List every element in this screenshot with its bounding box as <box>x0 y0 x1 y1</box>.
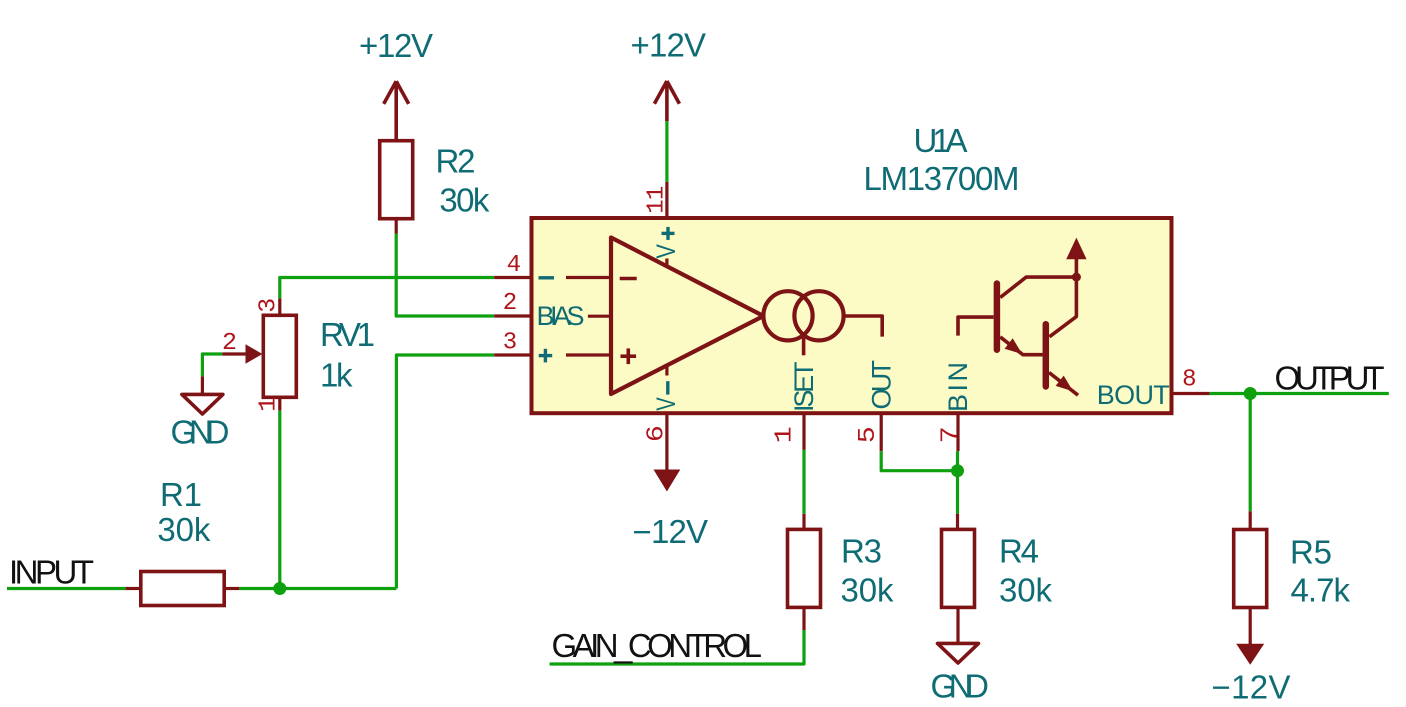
wire RV1 pin3 to pin4 <box>280 278 494 299</box>
svg-text:R3: R3 <box>841 533 882 570</box>
power symbol -12V (R5) <box>1212 644 1291 706</box>
wire R2 to pin2 BIAS <box>396 234 494 317</box>
pin 7 BIN <box>956 413 959 451</box>
svg-text:5: 5 <box>855 426 882 443</box>
current mirror ISET stub <box>802 333 806 355</box>
svg-text:1k: 1k <box>320 357 353 394</box>
svg-text:6: 6 <box>644 425 671 442</box>
svg-text:OUT: OUT <box>867 360 897 410</box>
svg-text:OUTPUT: OUTPUT <box>1275 360 1385 397</box>
svg-text:R2: R2 <box>436 142 476 179</box>
pin 1 ISET <box>802 413 805 450</box>
vertical to right transistor collector <box>1049 277 1076 337</box>
resistor R2 <box>380 141 490 234</box>
resistor R3 <box>788 514 895 630</box>
wire junction down to R5 <box>1249 394 1252 512</box>
svg-text:30k: 30k <box>439 181 490 218</box>
svg-text:RV1: RV1 <box>320 316 375 353</box>
current mirror circles <box>763 291 812 340</box>
wire pin1 to R3 <box>802 450 805 514</box>
svg-text:+12V: +12V <box>359 27 433 64</box>
svg-text:R4: R4 <box>999 533 1039 570</box>
junction dot at R1/RV1 <box>273 582 286 595</box>
right transistor base bar <box>1043 324 1050 386</box>
wire junction to pin3 (+) <box>396 355 494 589</box>
svg-text:+12V: +12V <box>631 27 707 64</box>
pin name V- (pin6) <box>666 381 669 394</box>
pin 4 <box>494 276 531 279</box>
wire BOUT to OUTPUT <box>1210 392 1389 395</box>
svg-text:BIAS: BIAS <box>537 301 585 331</box>
arrow up (output current) <box>1075 259 1079 278</box>
svg-text:1: 1 <box>772 426 799 443</box>
svg-text:R1: R1 <box>160 476 202 513</box>
svg-text:1: 1 <box>256 397 283 412</box>
wire junction up to RV1 pin1 <box>278 411 281 589</box>
svg-text:30k: 30k <box>999 572 1053 609</box>
svg-text:3: 3 <box>256 298 283 313</box>
gnd symbol (RV1 wiper) <box>171 354 230 451</box>
current mirror OUT stub <box>844 316 883 337</box>
svg-text:11: 11 <box>644 186 671 214</box>
resistor R5 <box>1234 511 1351 644</box>
svg-text:V: V <box>651 244 681 259</box>
right transistor emitter with arrow <box>1049 373 1078 396</box>
pin name plus (pin3) <box>539 354 553 357</box>
svg-text:7: 7 <box>937 426 964 443</box>
left transistor emitter with arrow <box>1000 337 1042 355</box>
wire INPUT to R1 <box>7 587 126 590</box>
power symbol +12V (above R2) <box>359 27 433 141</box>
wire pin5 to junction <box>881 451 957 471</box>
junction dot at OUTPUT <box>1244 387 1257 400</box>
svg-text:GAIN_CONTROL: GAIN_CONTROL <box>552 627 763 664</box>
svg-text:LM13700M: LM13700M <box>864 160 1020 197</box>
pin 8 BOUT <box>1172 392 1210 395</box>
svg-text:GND: GND <box>931 668 990 705</box>
pin 2 <box>494 314 531 317</box>
potentiometer RV1 <box>222 298 375 412</box>
svg-text:BOUT: BOUT <box>1097 380 1170 410</box>
pin name minus (pin4) <box>539 276 555 279</box>
svg-text:U1A: U1A <box>914 122 968 159</box>
resistor R4 <box>942 514 1053 644</box>
wire R1 to vertical riser <box>239 587 396 590</box>
base line into BIN stub <box>958 317 994 336</box>
svg-text:2: 2 <box>503 290 517 317</box>
svg-text:4: 4 <box>507 252 521 279</box>
left transistor collector <box>1000 277 1076 297</box>
svg-text:V: V <box>651 397 681 411</box>
svg-text:R5: R5 <box>1290 534 1332 571</box>
svg-text:GND: GND <box>171 414 230 451</box>
svg-text:30k: 30k <box>157 511 211 548</box>
IC U1A body box <box>532 218 1172 413</box>
wire R3 to GAIN_CONTROL <box>550 630 804 664</box>
svg-text:ISET: ISET <box>789 362 819 413</box>
svg-text:−12V: −12V <box>1212 669 1291 706</box>
svg-text:30k: 30k <box>841 572 895 609</box>
gnd symbol (R4) <box>931 643 990 704</box>
resistor R1 <box>126 476 240 606</box>
svg-text:4.7k: 4.7k <box>1291 572 1351 609</box>
svg-text:2: 2 <box>222 330 237 357</box>
svg-text:3: 3 <box>503 329 517 356</box>
svg-text:BIN: BIN <box>943 362 973 412</box>
pin 3 <box>494 353 531 356</box>
internal junction dot <box>1072 273 1081 282</box>
svg-text:−12V: −12V <box>633 513 709 550</box>
wire pin7 down to R4 <box>956 451 959 514</box>
pin 11 with +12V power <box>631 27 707 219</box>
op-amp triangle U1A <box>611 238 763 395</box>
transistor Q pair: left transistor base bar <box>994 284 1001 350</box>
svg-text:INPUT: INPUT <box>9 553 94 590</box>
pin 6 with -12V power <box>633 413 709 550</box>
pin 5 OUT <box>880 413 883 451</box>
junction dot pin5/pin7 <box>951 464 964 477</box>
svg-text:8: 8 <box>1182 367 1196 394</box>
